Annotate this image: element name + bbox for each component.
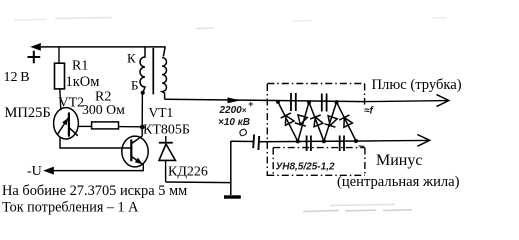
wire multiplier bottom row [259, 140, 365, 143]
capacitor C5 bottom row [340, 136, 344, 152]
node dot top 3 [335, 100, 339, 104]
node dot top 2 [307, 100, 311, 104]
svg-text:УН8,5/25-1,2: УН8,5/25-1,2 [276, 162, 335, 173]
ground [224, 195, 241, 198]
wire VT1 emitter lead [142, 164, 144, 171]
node -U arrow [43, 167, 54, 175]
svg-text:12: 12 [4, 70, 18, 85]
wire secondary output to multiplier [165, 99, 365, 101]
svg-text:R1: R1 [72, 59, 88, 74]
diode VD4 [309, 102, 324, 141]
diode VD3 [295, 102, 309, 141]
wire plus output [365, 101, 447, 102]
svg-text:Минус: Минус [376, 152, 422, 169]
box multiplier dash-dot outline [267, 84, 365, 177]
wire top supply rail [33, 46, 166, 48]
node dot bottom 3 [354, 139, 358, 143]
node junction dot R2/VT1 [140, 125, 145, 130]
node dot bottom 2 [322, 139, 326, 143]
wire riser to C1 [231, 140, 254, 142]
wire VT2 emitter to VT1 base [60, 137, 132, 148]
svg-text:Ток потребления – 1 А: Ток потребления – 1 А [2, 199, 139, 215]
resistor R1 [55, 63, 65, 89]
svg-text:VT1: VT1 [149, 105, 174, 120]
svg-text:КТ805Б: КТ805Б [143, 123, 190, 138]
capacitor C1 2200pF [253, 135, 259, 151]
wire R1 bottom lead [60, 89, 61, 110]
wire VT1 collector lead [141, 127, 143, 136]
capacitor C4 bottom row [307, 136, 311, 152]
svg-text:300 Ом: 300 Ом [82, 102, 125, 117]
transistor VT2 [54, 108, 79, 139]
svg-text:К: К [127, 50, 136, 65]
node minus open arrow [417, 135, 429, 147]
svg-text:-U: -U [27, 164, 42, 179]
diode VD2 [278, 102, 298, 141]
svg-text:+: + [248, 99, 254, 109]
diode VD6 [337, 102, 357, 141]
node dot bottom 1 [296, 139, 300, 143]
wire ground riser [230, 141, 232, 195]
node B winding dot [141, 91, 145, 95]
diode VD1 KD226 [159, 136, 176, 160]
capacitor C3 top row [322, 94, 327, 112]
diode VD5 [324, 102, 337, 141]
wire minus output [365, 139, 428, 142]
transformer T1 secondary [162, 47, 166, 99]
svg-text:КД226: КД226 [168, 165, 208, 180]
svg-text:В: В [20, 70, 29, 85]
node dot top 1 [276, 100, 280, 104]
svg-text:(центральная жила): (центральная жила) [337, 174, 460, 190]
svg-text:Плюс (трубка): Плюс (трубка) [372, 77, 462, 93]
svg-text:×10 кВ: ×10 кВ [218, 117, 250, 128]
node plus open arrow [437, 95, 449, 107]
resistor R2 [92, 122, 119, 129]
capacitor C2 top row [291, 93, 296, 111]
wire R1 top lead [58, 47, 60, 64]
wire faint scan smudge bottom [303, 205, 412, 212]
svg-text:На бобине 27.3705 искра 5 мм: На бобине 27.3705 искра 5 мм [2, 183, 187, 199]
node battery plus arrow [30, 43, 41, 51]
wire anode to ground node [166, 181, 231, 184]
wire KD226 anode down [165, 160, 167, 182]
svg-text:VT2: VT2 [59, 96, 85, 111]
wire VT2 base lead from R2 [78, 125, 91, 127]
svg-text:1кОм: 1кОм [66, 74, 100, 90]
transistor VT1 [122, 136, 148, 167]
wire -U line [52, 170, 144, 172]
wire faint scan smudge top [14, 18, 446, 29]
svg-text:Б: Б [131, 78, 138, 93]
svg-text:МП25Б: МП25Б [5, 105, 51, 121]
svg-text:2200×: 2200× [219, 105, 247, 116]
node plus sign [28, 51, 41, 64]
node small arrow on wire [228, 97, 241, 103]
transformer T1 core [152, 48, 154, 94]
transformer T1 primary [140, 47, 145, 93]
label squiggle C [240, 129, 247, 136]
svg-text:~: ~ [358, 141, 365, 153]
wire R2 right lead [119, 126, 143, 128]
wire B winding to junction [141, 93, 143, 127]
